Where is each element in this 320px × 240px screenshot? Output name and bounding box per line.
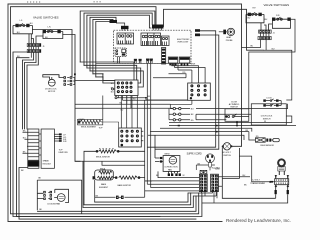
svg-text:TOP: TOP — [59, 150, 64, 152]
nested loop wire 4 — [90, 17, 116, 71]
connector grid P2 — [188, 83, 211, 100]
switch S4 R.R. row — [272, 17, 290, 20]
wire ladder left stubs — [23, 132, 28, 153]
wire box4 left to J1R — [269, 24, 273, 30]
junction motor wire — [74, 73, 76, 75]
component bus pin pair 1 — [134, 59, 136, 63]
svg-text:RD: RD — [191, 120, 194, 122]
connector column CL cap — [200, 170, 207, 174]
wire CR right row1 — [218, 177, 250, 186]
component bus pin pair 2 — [139, 59, 141, 63]
svg-text:SUPPLY CORD: SUPPLY CORD — [187, 153, 202, 155]
wire J1R pin links — [261, 33, 269, 36]
door activated switch S5 — [225, 109, 249, 122]
buzzer ring — [278, 159, 285, 175]
connector grid P1 — [115, 80, 138, 96]
wire left col spark feeds — [23, 53, 34, 130]
svg-text:BK: BK — [38, 178, 41, 180]
harness pins row C — [169, 119, 190, 121]
svg-text:TRANSFORMER: TRANSFORMER — [250, 182, 265, 185]
svg-text:R.R.: R.R. — [63, 141, 67, 143]
connector fan pins blk2 — [50, 191, 52, 200]
wire left run 5 spark return — [19, 168, 196, 220]
svg-text:BU: BU — [191, 109, 194, 111]
wire loop5 to grid1 — [93, 74, 115, 81]
registration dots top — [27, 1, 101, 2]
connector bake pins — [116, 196, 124, 199]
wire box1 loop — [13, 26, 33, 34]
harness pins row B — [169, 113, 190, 115]
svg-text:VALVE SWITCHES: VALVE SWITCHES — [264, 3, 290, 7]
wire right side loop — [249, 19, 295, 109]
wire valve box2 to vertical x75 — [63, 35, 75, 121]
svg-text:BK/W: BK/W — [165, 153, 170, 155]
svg-text:BAKE: BAKE — [101, 183, 107, 186]
connector fan pins blk1 — [43, 191, 45, 200]
svg-text:R.R.: R.R. — [276, 15, 280, 17]
svg-text:SWITCH: SWITCH — [223, 155, 231, 157]
wire P1-P3 links — [121, 96, 137, 129]
wire box4 loop — [272, 19, 290, 28]
switch S2 L.R. row — [43, 29, 63, 32]
relay coil K1 — [116, 22, 129, 31]
sub board dashed — [115, 48, 127, 57]
relay bank RY1 — [117, 33, 134, 44]
svg-text:DOOR: DOOR — [231, 101, 237, 103]
wire loop3 to grid1 — [87, 68, 141, 83]
svg-text:RD/BK: RD/BK — [79, 119, 85, 121]
wire Jb down run — [155, 35, 219, 149]
svg-text:BK: BK — [191, 114, 194, 116]
wire P2 feeds top — [153, 63, 205, 83]
wire grid P1 to broil — [102, 96, 104, 120]
wire L1 border run top-left — [8, 4, 242, 222]
svg-text:SWITCH: SWITCH — [263, 118, 271, 120]
junction mid2 — [215, 125, 217, 127]
wire mid run W3 — [196, 114, 226, 120]
supply cord plug P — [196, 154, 215, 170]
svg-text:BROIL IGNITOR: BROIL IGNITOR — [96, 156, 110, 158]
oven lamp DS1 — [222, 143, 276, 199]
svg-text:DOOR LOCK: DOOR LOCK — [261, 115, 273, 117]
splice blob A — [110, 20, 118, 23]
connector TB pin marks — [169, 64, 188, 66]
connector motor pins col2 — [70, 76, 72, 85]
wire motor to grid P1 — [75, 79, 115, 81]
component D1 — [116, 50, 118, 52]
wire mid run W2 — [196, 113, 251, 115]
wire left run 4 — [17, 58, 161, 217]
svg-text:J1: J1 — [43, 46, 46, 48]
pin E1 — [112, 88, 115, 90]
wire cooling fan run — [38, 196, 197, 211]
component TB2 — [179, 57, 190, 65]
svg-text:COOLING FAN: COOLING FAN — [47, 203, 61, 206]
wire long run y128.2 — [160, 128, 252, 131]
svg-text:SPARK: SPARK — [43, 160, 50, 163]
wire ladder-box links — [39, 134, 41, 155]
svg-text:SWITCH: SWITCH — [230, 107, 238, 109]
wire bake bottom row — [95, 180, 145, 202]
wire center verticals — [141, 63, 199, 197]
switch S1 L.F. row — [13, 23, 33, 26]
junction B — [102, 76, 103, 77]
svg-text:10.5 VOLT: 10.5 VOLT — [222, 152, 232, 154]
wire mid run W — [196, 104, 288, 109]
broil ignitor R3 — [83, 148, 145, 207]
oven sensor RT1 — [255, 138, 279, 142]
connector P1 left row2 — [27, 50, 41, 53]
junction mid1 — [178, 125, 180, 127]
broil element R2 — [78, 120, 119, 128]
control board dashed outline — [114, 30, 191, 63]
transformer T2 — [275, 175, 289, 190]
transformer T1 vertical — [162, 48, 166, 65]
wire long run y135.2 — [148, 135, 244, 140]
switch S3 R.F. row — [246, 12, 264, 15]
harness pins row A — [170, 107, 190, 109]
wire box3 bottom to J1R — [261, 23, 266, 30]
splice blobs top ignitors — [59, 133, 62, 141]
junction P1fan — [145, 97, 147, 98]
wire CL fan left row1 — [158, 171, 199, 177]
wire N inner border run — [11, 7, 199, 214]
connector motor pins col1 — [64, 76, 66, 85]
svg-text:BK: BK — [39, 209, 42, 211]
svg-text:VALVE SWITCHES: VALVE SWITCHES — [33, 16, 59, 20]
relay bank RY2 — [141, 33, 161, 46]
svg-text:L.F.: L.F. — [20, 20, 23, 22]
wire board bottom bus — [96, 62, 191, 64]
terminal Jb — [195, 34, 200, 37]
svg-text:CONVECT ION: CONVECT ION — [164, 167, 178, 169]
svg-text:OVEN CONT: OVEN CONT — [177, 41, 189, 43]
svg-text:BK: BK — [244, 184, 247, 186]
component bus pin pair 3 — [146, 59, 149, 63]
svg-text:W: W — [183, 175, 185, 177]
wire broil bottom — [75, 161, 145, 165]
wire Ja down run — [147, 31, 215, 147]
wire switch mid drops — [31, 34, 33, 44]
svg-text:BU: BU — [111, 92, 114, 94]
svg-text:PROBE: PROBE — [226, 40, 233, 42]
wire J1R left exit — [242, 40, 261, 48]
nested loop wire 1 — [80, 11, 155, 62]
junction A — [102, 73, 103, 74]
svg-text:BROIL ELEMENT: BROIL ELEMENT — [81, 127, 97, 129]
junction door act 1 — [236, 122, 238, 124]
svg-text:OVEN SENSOR: OVEN SENSOR — [260, 145, 275, 147]
nested loop wire 2 — [84, 13, 152, 65]
spark module box — [41, 129, 54, 168]
wire J1-P1 pin links — [29, 47, 38, 58]
wire box1 bottom to J1 — [28, 34, 30, 44]
wire top ignitor leads — [54, 134, 59, 141]
svg-text:BU: BU — [30, 23, 33, 25]
wire harness feeds — [169, 100, 192, 120]
nested loop wire 5 — [93, 19, 113, 73]
door lock motor M1 — [43, 75, 75, 86]
svg-text:BK: BK — [148, 96, 151, 98]
wire left col spark feed 2 — [25, 53, 37, 130]
svg-text:HEAT: HEAT — [226, 36, 232, 39]
wire buzzer left — [239, 156, 274, 182]
broil element box — [78, 119, 103, 125]
nested loop wire 3 — [87, 15, 151, 68]
svg-text:FAN: FAN — [168, 169, 172, 172]
svg-text:W: W — [264, 121, 266, 123]
spark module ladder — [23, 129, 55, 168]
wire long run y122.5 — [169, 116, 292, 123]
wire left col spark feed 3 — [27, 53, 38, 130]
svg-text:ACTIVATED: ACTIVATED — [229, 103, 240, 106]
label BK T2 — [270, 181, 273, 183]
wire stair 3 — [83, 196, 193, 208]
wire CR leg down — [214, 192, 217, 203]
component bus pin pair 4 — [150, 59, 153, 63]
wire loop4 to grid1 — [90, 71, 143, 87]
svg-text:BK/R: BK/R — [191, 64, 196, 66]
arrow transformer — [270, 181, 274, 183]
svg-text:LOCK: LOCK — [267, 98, 273, 100]
wire box2 left to J1 — [36, 36, 43, 44]
svg-text:J1: J1 — [273, 33, 276, 35]
svg-text:ELEMENT: ELEMENT — [99, 187, 109, 189]
wire left run 3 — [13, 52, 202, 217]
wire long run y125.5 — [169, 125, 296, 127]
connector conv lower pins — [168, 173, 181, 176]
pin E2 — [115, 96, 117, 99]
svg-text:DOOR LOCK: DOOR LOCK — [45, 89, 57, 91]
connector conv pins — [160, 157, 162, 163]
transformer lead blobs — [275, 190, 277, 194]
connector P1 right row2 — [258, 37, 271, 40]
bake element loop — [93, 170, 113, 180]
terminal Ja — [195, 29, 200, 32]
connector column CL body — [199, 174, 207, 191]
heat indicator lamp — [223, 28, 234, 35]
component R1 — [122, 53, 126, 55]
svg-text:BAKE IGNITOR: BAKE IGNITOR — [118, 184, 132, 187]
connector J1 left row1 — [27, 44, 41, 47]
svg-text:Rendered by LeadVenture, Inc.: Rendered by LeadVenture, Inc. — [226, 218, 291, 223]
wire valve box1 to vertical x72 — [33, 30, 73, 78]
bake ignitor R4 — [113, 176, 144, 179]
wire J1R right exit down — [263, 40, 292, 100]
wire N2 top right branch — [164, 9, 264, 50]
wire box3 loop — [246, 14, 264, 22]
convection fan M3 — [155, 135, 180, 173]
svg-text:MOTOR: MOTOR — [48, 91, 56, 93]
relay bank RY3 — [162, 36, 170, 46]
wire heat indicator feed — [219, 31, 224, 33]
wire loop1 to grid1 row1 — [80, 62, 134, 80]
svg-text:IGNITORS: IGNITORS — [59, 152, 69, 154]
door lock contacts — [263, 99, 281, 107]
connector grid P3 — [119, 128, 142, 147]
wire CL fan left row2 — [145, 180, 200, 182]
wire door act drop — [236, 121, 238, 125]
svg-text:BU: BU — [248, 17, 251, 19]
wire long vertical x75 broil — [75, 121, 80, 162]
svg-text:BROIL: BROIL — [100, 168, 107, 170]
svg-text:N=L INE 1: N=L INE 1 — [212, 168, 221, 170]
svg-text:BK: BK — [21, 170, 24, 172]
component C1 — [122, 49, 126, 52]
wire stair 2 — [84, 193, 191, 205]
wire P1 bottom fan — [75, 96, 188, 109]
svg-text:R.F.: R.F. — [253, 8, 257, 10]
wire stair 1 — [95, 193, 188, 202]
cooling fan M2 — [37, 180, 81, 213]
svg-text:TOP: TOP — [99, 127, 104, 129]
wire loop2 to grid1 row2 — [84, 65, 137, 80]
wire sub board drops — [118, 57, 120, 64]
relay coil K2 — [152, 25, 164, 31]
component TB1 — [168, 57, 178, 65]
nested loop wire 6 — [96, 22, 111, 77]
svg-text:L.R.: L.R. — [48, 27, 52, 29]
junction door act 2 — [236, 125, 238, 127]
svg-text:MODULE: MODULE — [43, 164, 52, 166]
wire T2 legs — [202, 194, 288, 203]
wire column bottoms — [188, 191, 216, 196]
junction mid3 — [215, 131, 217, 133]
wire long run y131.6 — [150, 132, 255, 140]
door lock switch box — [251, 104, 286, 125]
connector J1 right row1 — [259, 30, 272, 33]
svg-text:BU: BU — [265, 19, 268, 21]
wire box2 loop — [43, 32, 63, 39]
wire loop6 to grid1 — [96, 77, 115, 83]
component D2 — [116, 53, 118, 55]
connector column CR body — [211, 174, 219, 191]
